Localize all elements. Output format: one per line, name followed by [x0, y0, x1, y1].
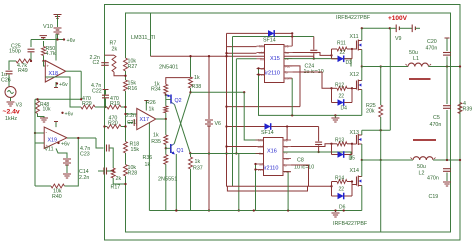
wire drain bus	[361, 28, 363, 40]
resistor R28 on inner loop	[124, 165, 128, 177]
svg-text:L2: L2	[419, 171, 425, 177]
wire maroon bus vertical	[226, 33, 228, 186]
red probe bar bottom	[413, 139, 436, 141]
wire X19 power top	[55, 122, 57, 127]
svg-text:C20: C20	[427, 39, 437, 45]
svg-text:+6v: +6v	[61, 142, 70, 148]
resistor R7	[105, 54, 115, 56]
ground top-left	[54, 14, 62, 16]
wire parallel combo R13 D5	[291, 144, 332, 147]
svg-text:R34: R34	[151, 87, 161, 93]
capacitor C22	[103, 89, 109, 91]
svg-text:+6v: +6v	[67, 38, 76, 44]
svg-text:1k: 1k	[194, 75, 200, 81]
resistor R18 on inner loop	[124, 142, 128, 154]
svg-text:V10: V10	[43, 24, 53, 30]
svg-text:470n: 470n	[426, 46, 438, 52]
wire X17 output node	[156, 118, 166, 120]
diode D5	[338, 151, 344, 158]
node R29 R19 junction	[104, 106, 106, 108]
comparator X17	[137, 108, 156, 129]
wire crossing diagonal B	[175, 105, 191, 154]
wire X18 power bottom	[55, 82, 57, 87]
resistor R27 on inner loop	[124, 58, 128, 71]
svg-text:R40: R40	[52, 194, 62, 200]
svg-text:lin: lin	[260, 57, 264, 61]
svg-text:X13: X13	[350, 130, 359, 136]
svg-text:sd: sd	[259, 163, 263, 167]
svg-text:1k: 1k	[153, 133, 159, 139]
flag +6v at X18 output	[56, 82, 58, 84]
wire vdd X15	[227, 52, 257, 54]
ground under R48	[38, 114, 45, 119]
ground mid bridge	[334, 115, 336, 117]
diode D4	[338, 99, 344, 106]
svg-text:R49: R49	[18, 68, 28, 74]
transistor Q1	[170, 144, 172, 153]
svg-text:V9: V9	[395, 36, 402, 42]
resistor R37	[189, 152, 191, 154]
svg-text:vb: vb	[285, 45, 289, 49]
pins X16 right	[283, 139, 291, 141]
svg-text:lin: lin	[259, 152, 263, 156]
svg-text:V6: V6	[215, 121, 222, 127]
wire L2 to edge	[433, 159, 460, 161]
wire bottom rail dots	[149, 210, 361, 212]
wire crossing diagonal A	[174, 92, 190, 144]
svg-text:X18: X18	[49, 71, 58, 77]
svg-text:X15: X15	[270, 56, 280, 62]
capacitor C20	[446, 38, 448, 51]
svg-text:C5: C5	[433, 115, 440, 121]
wire C22 top	[105, 90, 107, 95]
svg-text:ho: ho	[285, 51, 289, 55]
capacitor C21	[128, 122, 133, 124]
svg-text:R37: R37	[193, 166, 203, 172]
svg-text:R17: R17	[111, 185, 121, 191]
svg-text:R20: R20	[108, 120, 118, 126]
wire maroon bottom box	[227, 185, 332, 187]
wire X14 source to ground	[361, 186, 363, 211]
resistor R35	[165, 119, 167, 135]
wire +100V rail	[362, 27, 390, 29]
svg-text:vdd: vdd	[257, 145, 263, 149]
svg-text:lo: lo	[285, 71, 288, 75]
svg-text:R29: R29	[82, 101, 92, 107]
svg-text:R16: R16	[128, 86, 138, 92]
svg-text:C23: C23	[80, 152, 90, 158]
svg-text:R38: R38	[192, 84, 202, 90]
wire X17 power stubs	[145, 101, 147, 111]
wire rail B	[191, 91, 245, 93]
wire vs row X15	[284, 59, 351, 67]
wire X16 sd vss tie	[255, 164, 257, 170]
wire gate X13	[352, 143, 357, 145]
svg-text:1k: 1k	[195, 159, 201, 165]
capacitor C2	[101, 62, 109, 64]
svg-text:2N5401: 2N5401	[159, 65, 178, 71]
red probe bar top	[409, 78, 431, 80]
svg-text:vcc: vcc	[285, 64, 290, 68]
svg-text:C2: C2	[93, 60, 100, 66]
capacitor C26	[6, 70, 13, 72]
wire X18 -input feedback	[45, 77, 81, 107]
svg-text:~2.4v: ~2.4v	[3, 109, 20, 116]
op-amp X18	[45, 61, 65, 83]
wire vb drop X16	[286, 127, 288, 141]
svg-text:hin: hin	[259, 45, 264, 49]
wire X13 source to output	[361, 144, 363, 160]
svg-text:Q1: Q1	[177, 148, 184, 154]
flag +6v at R48	[61, 112, 63, 114]
wire SF14 to vb	[291, 33, 293, 46]
wire L1 to edge	[429, 66, 461, 68]
op-amp X19	[35, 132, 44, 134]
battery V10	[54, 27, 62, 29]
wire X19 output	[67, 137, 96, 139]
resistor R40	[35, 185, 51, 187]
svg-text:vss: vss	[258, 168, 263, 172]
svg-text:vdd: vdd	[258, 51, 264, 55]
wire maroon bottom box 2	[227, 186, 307, 191]
svg-text:X19: X19	[48, 138, 57, 144]
svg-text:D3: D3	[346, 60, 353, 66]
wire X16 hin from rail B	[244, 92, 263, 140]
svg-text:+: +	[47, 64, 50, 69]
ground under C19	[443, 181, 451, 183]
wire inner feedback loop	[126, 13, 451, 232]
svg-text:15k: 15k	[131, 147, 140, 153]
ground under V11	[63, 173, 71, 175]
svg-text:X16: X16	[267, 149, 277, 155]
wire gate X11	[352, 48, 357, 50]
capacitor C14	[103, 168, 105, 175]
node +6v flag at V10	[63, 38, 65, 40]
wire node to X18 +input	[44, 61, 46, 66]
svg-text:C22: C22	[92, 89, 102, 95]
svg-text:X17: X17	[140, 117, 149, 123]
svg-text:vb: vb	[284, 139, 288, 143]
svg-text:R36: R36	[143, 155, 153, 161]
svg-text:L1: L1	[413, 56, 419, 62]
ground under V3	[7, 101, 15, 103]
battery V6	[208, 56, 210, 119]
wire X12 drain	[361, 67, 363, 81]
svg-text:com: com	[284, 170, 291, 174]
resistor R36	[165, 148, 167, 154]
capacitor C5	[443, 105, 451, 107]
wire rail E to SF14	[227, 126, 265, 128]
wire X19 out to C23	[96, 138, 103, 148]
svg-text:C19: C19	[429, 194, 439, 200]
wire outer feedback loop	[105, 5, 461, 241]
battery V9	[390, 27, 396, 29]
wire X11 source to output	[361, 50, 363, 67]
diode D6	[338, 193, 344, 200]
wire V10 to +6v node	[57, 34, 59, 40]
wire X17 negative supply down	[148, 123, 150, 211]
wire X12 source to ground	[361, 90, 363, 116]
svg-text:R28: R28	[128, 171, 138, 177]
svg-text:22: 22	[339, 94, 345, 100]
wire X17 +input	[126, 113, 137, 115]
svg-text:22: 22	[340, 50, 346, 56]
wire nest vertical b	[238, 154, 240, 211]
inductor L1	[408, 63, 429, 66]
svg-text:R13: R13	[335, 138, 344, 144]
wire feedback left vertical	[34, 99, 36, 186]
wire C5 column	[446, 67, 448, 105]
wire X19 +input stub	[35, 142, 44, 144]
svg-text:C8: C8	[297, 158, 304, 164]
wire Q1 emitter down	[175, 154, 177, 211]
svg-text:+6v: +6v	[59, 82, 68, 88]
svg-text:2k: 2k	[112, 47, 118, 53]
wire X18 power top	[55, 34, 57, 61]
svg-text:R12: R12	[335, 83, 344, 89]
svg-text:470n: 470n	[427, 176, 439, 182]
node input junction	[30, 60, 32, 62]
wire rail D	[227, 106, 301, 108]
resistor R34	[166, 78, 191, 85]
resistor R48	[36, 101, 40, 114]
svg-text:D6: D6	[339, 205, 346, 211]
battery V11	[56, 149, 67, 159]
wire X18 output	[66, 70, 82, 72]
svg-text:R26: R26	[146, 100, 156, 106]
resistor R16 on inner loop	[124, 80, 128, 91]
transistor Q2	[170, 95, 172, 104]
wire 100V drop to X13	[389, 28, 391, 130]
wire parallel combo R14 D6	[291, 165, 309, 186]
svg-text:ir2110: ir2110	[265, 71, 280, 77]
wire R49 to C26	[9, 61, 16, 70]
IC X15	[265, 45, 285, 83]
wire hin X15	[227, 46, 257, 48]
node X17 output	[165, 118, 167, 120]
wire output bottom rail	[362, 159, 413, 161]
diode SF14 top	[227, 32, 269, 34]
svg-text:SF14: SF14	[261, 130, 274, 136]
svg-text:+100V: +100V	[388, 15, 408, 22]
wire X13 drain up	[361, 130, 363, 135]
pins X15 right	[284, 45, 292, 47]
svg-text:2.2n: 2.2n	[126, 113, 136, 119]
svg-text:Q2: Q2	[175, 98, 182, 104]
svg-text:10k: 10k	[43, 107, 52, 113]
svg-text:R11: R11	[337, 40, 346, 46]
ground bottom bridge	[335, 211, 337, 213]
svg-text:R39: R39	[463, 107, 473, 113]
svg-text:LM311_TI: LM311_TI	[131, 35, 156, 41]
svg-text:2.2n: 2.2n	[79, 175, 89, 181]
svg-text:X12: X12	[350, 72, 359, 78]
svg-text:D5: D5	[349, 156, 356, 162]
resistor R25	[380, 67, 382, 106]
resistor R50	[43, 41, 45, 47]
svg-text:com: com	[285, 77, 292, 81]
wire vcc X15 route	[284, 66, 300, 107]
IC X16	[264, 138, 284, 176]
svg-text:D4: D4	[341, 106, 348, 112]
resistor R29	[81, 105, 95, 109]
svg-text:V11: V11	[45, 147, 54, 153]
wire inner loop left edge segments	[125, 71, 127, 80]
svg-text:IRFB4227PBF: IRFB4227PBF	[336, 15, 371, 21]
resistor R20	[105, 126, 108, 128]
wire R25 to inner loop	[380, 160, 382, 232]
pins X15 left	[257, 45, 265, 47]
svg-text:IRFB4227PBF: IRFB4227PBF	[333, 221, 368, 227]
wire output top rail	[362, 66, 408, 68]
svg-text:1k: 1k	[149, 107, 155, 113]
flag +6v at X19	[57, 142, 59, 144]
wire C23 to R17 column	[109, 148, 113, 168]
capacitor C23	[106, 145, 108, 152]
svg-text:C26: C26	[1, 78, 11, 84]
svg-text:ho: ho	[284, 145, 288, 149]
wire gate X14	[352, 184, 357, 186]
svg-text:+6v: +6v	[65, 111, 74, 117]
svg-text:4.7k: 4.7k	[46, 51, 56, 57]
wire nest vertical a	[232, 37, 234, 187]
svg-text:R14: R14	[335, 176, 344, 182]
resistor R38	[190, 56, 192, 77]
wire parallel combo R11 D3	[292, 53, 331, 56]
svg-text:R35: R35	[151, 139, 161, 145]
capacitor C25	[30, 40, 32, 48]
plate pair above R50	[40, 35, 48, 37]
wire feedback loop tap	[150, 13, 152, 56]
wire sd vss tie X15 and com return	[259, 68, 362, 115]
wire lin X15	[236, 58, 256, 60]
wire feedback rail R48	[35, 98, 81, 100]
diode SF14 bottom	[265, 123, 271, 130]
svg-text:ir2110: ir2110	[264, 166, 279, 172]
svg-text:R27: R27	[128, 64, 138, 70]
wire vs row X16	[283, 152, 351, 160]
svg-text:sd: sd	[260, 67, 264, 71]
svg-text:2N5551: 2N5551	[158, 177, 177, 183]
svg-text:470n: 470n	[430, 122, 442, 128]
source V3	[5, 87, 16, 98]
inductor L2	[413, 157, 433, 160]
svg-text:lo: lo	[284, 164, 287, 168]
wire rail 153.5 long	[190, 153, 263, 155]
svg-text:22: 22	[339, 187, 345, 193]
svg-text:2k: 2k	[116, 176, 122, 182]
wire gate X12	[352, 88, 357, 90]
wire X16 vdd	[227, 146, 257, 148]
diode D3	[338, 56, 344, 63]
wire parallel combo R12 D4	[292, 72, 331, 88]
pins X16 left	[256, 139, 264, 141]
resistor R49	[16, 59, 31, 63]
svg-text:C21: C21	[127, 120, 136, 126]
svg-text:X14: X14	[350, 168, 359, 174]
resistor R19	[107, 105, 121, 109]
resistor R39 on edge	[458, 103, 462, 114]
svg-text:50u: 50u	[417, 164, 426, 170]
svg-text:SF14: SF14	[263, 38, 276, 44]
capacitor C24	[313, 37, 315, 50]
svg-text:X11: X11	[350, 34, 359, 40]
resistor R26	[165, 95, 167, 106]
wire rail A	[151, 55, 314, 57]
wire X14 drain	[361, 160, 363, 177]
capacitor C8	[318, 127, 320, 142]
wire X16 com down	[283, 172, 288, 211]
svg-text:hin: hin	[258, 139, 263, 143]
wire bootstrap green top	[233, 36, 314, 38]
svg-text:1kHz: 1kHz	[5, 116, 17, 122]
resistor R17	[111, 168, 115, 178]
wire rail B end	[243, 91, 245, 93]
wire com X15 down	[291, 78, 293, 115]
svg-text:R19: R19	[110, 101, 120, 107]
svg-text:20k: 20k	[366, 109, 375, 115]
capacitor C19	[443, 168, 451, 170]
svg-text:vcc: vcc	[284, 157, 289, 161]
svg-text:150p: 150p	[9, 49, 21, 55]
